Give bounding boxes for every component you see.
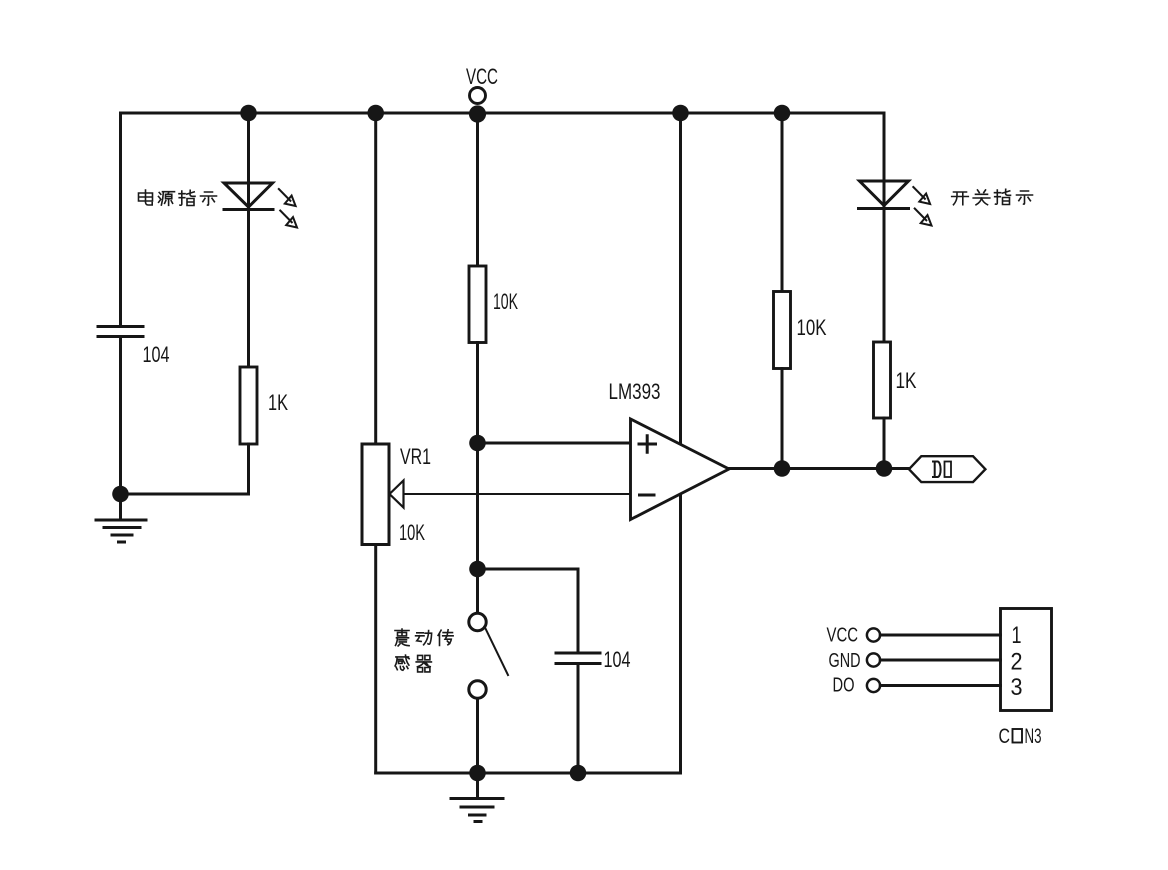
svg-text:1K: 1K <box>896 368 917 393</box>
wire GND node to R2 bottom <box>121 493 249 496</box>
capacitor C1 104 <box>98 327 143 337</box>
ground bottom <box>451 773 503 822</box>
LED D2 emission arrows <box>913 187 931 226</box>
VR1 wiper arrow <box>390 481 404 508</box>
svg-text:DO: DO <box>833 675 855 697</box>
LED D1 (power indicator) <box>224 183 273 210</box>
power symbol VCC <box>466 64 498 104</box>
capacitor C2 104 <box>556 653 600 664</box>
label 电源指示 (power indicator) <box>139 190 217 206</box>
svg-text:104: 104 <box>604 647 631 672</box>
pin VCC <box>827 625 1001 647</box>
svg-text:3: 3 <box>1011 674 1023 701</box>
svg-text:VCC: VCC <box>827 625 859 647</box>
port DO flag <box>909 456 985 482</box>
node top rail / LED1 branch <box>240 105 257 122</box>
svg-text:10K: 10K <box>493 289 518 314</box>
LED D2 (switch indicator) <box>859 181 909 209</box>
svg-text:VR1: VR1 <box>400 444 431 469</box>
label CON3 <box>999 725 1042 748</box>
wire C1 bottom to GND node <box>119 338 122 494</box>
wire VCC to R1 <box>476 113 479 266</box>
wire junction to C2 top <box>478 568 579 571</box>
wire opamp output <box>729 467 910 470</box>
svg-text:C: C <box>999 725 1011 748</box>
node bottom rail / sensor <box>469 765 486 782</box>
resistor R3 10K <box>774 292 791 369</box>
label 开关指示 (switch indicator) <box>952 189 1033 205</box>
node bottom rail / C2 <box>570 765 587 782</box>
svg-text:VCC: VCC <box>466 64 498 89</box>
wire R4 bottom to output <box>883 418 886 469</box>
node output / R4 <box>876 460 893 477</box>
svg-text:GND: GND <box>829 650 861 672</box>
wire C2 bottom to bottom rail <box>577 665 580 773</box>
node noninverting input junction <box>469 435 486 452</box>
svg-text:104: 104 <box>143 342 170 367</box>
pin GND <box>829 650 1001 672</box>
wire C2 vertical top <box>577 569 580 651</box>
wire R2 bottom to GND wire <box>247 444 250 494</box>
pin DO <box>833 675 1001 697</box>
wire R1 bottom through nodes to switch <box>476 343 479 614</box>
wire left drop to C1 <box>119 113 122 324</box>
label 震动传感器 (vibration sensor) <box>395 629 453 672</box>
wire wiper to inverting input <box>404 493 631 495</box>
LED D1 emission arrows <box>279 189 297 228</box>
svg-text:1K: 1K <box>268 390 288 415</box>
svg-text:2: 2 <box>1011 649 1023 676</box>
vibration sensor switch SW1 <box>469 613 508 773</box>
resistor R4 1K <box>874 342 891 418</box>
wire LED2 branch vertical <box>883 113 886 342</box>
node top rail / VCC entry <box>469 105 486 122</box>
resistor R1 10K <box>469 266 486 343</box>
svg-text:LM393: LM393 <box>609 379 661 404</box>
connector CON3 body <box>1001 609 1052 711</box>
svg-text:10K: 10K <box>399 520 425 545</box>
wire VR1 bottom to bottom rail <box>374 545 377 774</box>
svg-text:10K: 10K <box>797 315 827 340</box>
wire R3 branch vertical <box>781 113 784 292</box>
wire top VCC rail <box>121 112 885 115</box>
node top rail / R3 <box>774 105 791 122</box>
wire middle vertical (opamp V- rail) <box>679 113 682 773</box>
svg-text:N3: N3 <box>1025 725 1042 748</box>
wire VR1 branch vertical top <box>374 113 377 444</box>
node top rail / middle vertical <box>672 105 689 122</box>
node output / R3 <box>774 460 791 477</box>
resistor R2 1K <box>240 367 257 444</box>
op-amp U1 LM393 <box>631 419 730 520</box>
wire R3 bottom to output <box>781 369 784 469</box>
wire bottom rail <box>376 772 681 775</box>
wire to noninverting input <box>478 442 631 445</box>
node sensor / C2 junction <box>469 561 486 578</box>
node top rail / VR1 branch <box>367 105 384 122</box>
node GND-left junction <box>112 486 129 503</box>
wire LED1 branch vertical <box>247 113 250 367</box>
ground left <box>96 494 146 542</box>
svg-text:1: 1 <box>1012 622 1022 649</box>
potentiometer VR1 body <box>362 444 389 545</box>
